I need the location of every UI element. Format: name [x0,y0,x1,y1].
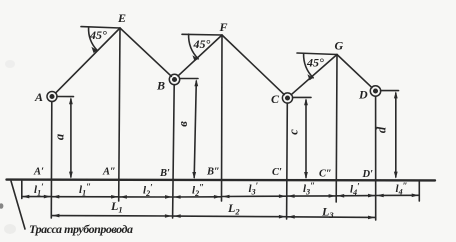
wire B-F slope [178,35,222,76]
vertical from peak G [335,55,338,203]
ground baseline (pipeline trace) [7,178,436,181]
l4'' arrows [377,194,384,198]
l3'' arrows [288,194,295,198]
svg-text:D′: D′ [362,169,374,180]
dim d bottom arrow [394,172,398,179]
svg-text:E: E [117,11,126,25]
scan smudge near caption [4,224,16,234]
svg-text:Трасса трубопровода: Трасса трубопровода [29,222,133,236]
vertical from point D [375,96,377,220]
dimension row L1 [52,215,172,217]
svg-text:45°: 45° [193,37,211,51]
scan smudge upper left [5,60,15,68]
horizontal reference line at peak E [81,27,120,28]
vertical from peak E [119,28,120,201]
wire G-D slope [337,55,372,88]
right end tick [418,181,420,201]
horizontal offset line at B [180,78,198,80]
dimension row l4' [337,195,375,197]
scan speck left edge [0,203,3,209]
dim d top arrow [394,91,398,98]
l4' arrows [337,194,344,198]
leader line to caption [11,181,25,229]
dimension row l2' [119,196,172,198]
l1'' arrows [52,195,59,199]
arrowhead arc E [91,47,97,53]
wire A-E slope [56,28,120,93]
svg-text:в: в [176,121,190,127]
45 degree arc at E [89,27,98,50]
vertical from point B [173,85,175,218]
horizontal reference line at peak F [182,33,222,36]
benchmark B [169,74,179,84]
dim b top arrow [194,79,198,86]
arrowhead arc F [192,55,198,61]
svg-text:B: B [156,79,165,93]
dimension row l4'' [376,194,418,196]
dimension row L2 [173,215,285,218]
horizontal offset line at D [381,90,399,92]
tick A' [21,181,23,199]
svg-text:F: F [219,20,228,34]
benchmark D [370,86,380,96]
dim b bottom arrow [192,172,196,179]
svg-text:A: A [34,90,43,104]
L1 arrows [52,214,59,218]
svg-text:D: D [358,88,368,102]
dimension row l1'' [52,196,118,198]
dimension row l1' [23,196,52,198]
L3 arrows [288,215,295,219]
svg-text:B′: B′ [159,168,170,179]
dimension row l3' [222,195,286,197]
dim c bottom arrow [304,172,308,179]
dimension row l3'' [287,195,335,197]
dimension line a [70,99,72,177]
l2'' arrows [174,195,181,199]
svg-text:G: G [335,39,344,53]
svg-text:B″: B″ [206,167,220,178]
svg-text:a: a [53,134,67,140]
vertical from peak F [221,35,224,201]
dimension line c [305,100,307,178]
benchmark A [47,92,57,102]
dimension row L3 [287,216,375,219]
wire E-B slope [120,28,171,76]
svg-text:45°: 45° [306,56,324,70]
45 degree arc at G [304,53,314,78]
arrowhead arc G [307,74,313,80]
l2' arrows [120,195,127,199]
svg-text:C″: C″ [319,169,332,180]
L2 arrows [174,214,181,218]
dimension line d [395,93,397,177]
svg-text:c: c [287,129,301,135]
arrowheads [22,47,418,219]
svg-text:A′: A′ [33,167,44,178]
dimension row l2'' [173,196,221,198]
svg-text:d: d [375,126,389,133]
horizontal offset line at A [57,96,74,98]
vertical from point A [50,102,53,219]
dim a bottom arrow [69,172,73,179]
wire F-C slope [222,35,284,95]
benchmark C [282,93,292,103]
dim a top arrow [69,97,73,104]
45 degree arc at F [189,34,199,59]
l3' arrows [223,195,230,199]
dim c top arrow [304,98,308,105]
dimension line b [194,81,196,178]
l1' arrows [22,195,29,199]
svg-text:C′: C′ [272,167,282,178]
horizontal offset line at C [293,96,311,98]
vertical from point C [286,103,289,219]
svg-text:C: C [271,92,280,106]
svg-text:A″: A″ [102,167,116,178]
wire C-G slope [291,55,337,95]
horizontal reference line at peak G [297,53,337,55]
svg-text:45°: 45° [89,28,107,42]
